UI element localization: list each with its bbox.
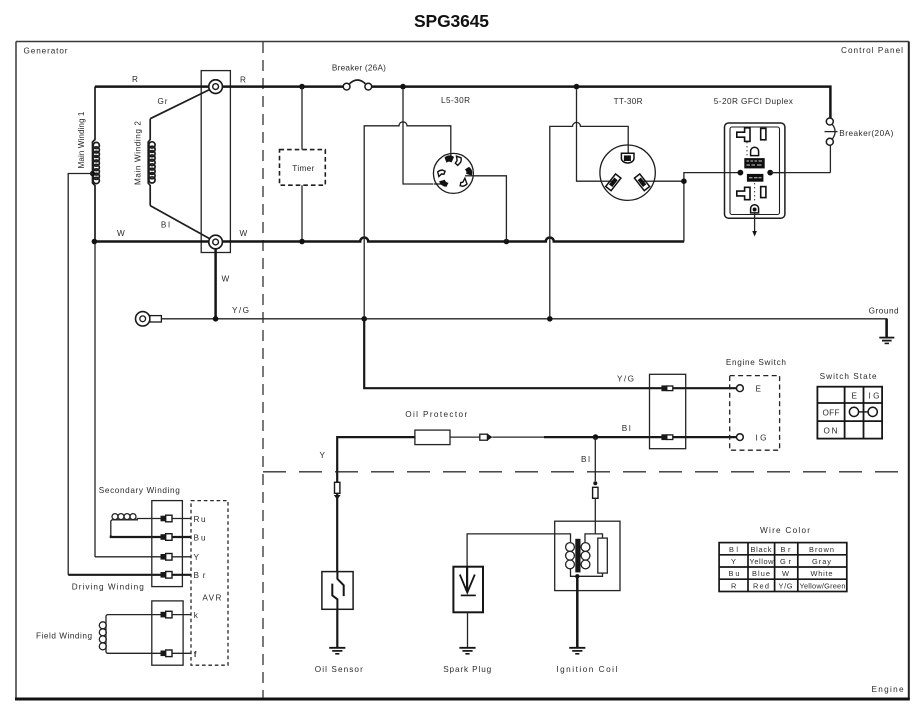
wire Y from oil protector down to oil sensor (337, 437, 415, 571)
svg-text:Blue: Blue (752, 569, 770, 578)
node R bus / L5-30R feed (400, 84, 406, 90)
svg-text:Black: Black (751, 545, 772, 554)
ground symbol spark plug (459, 648, 475, 654)
svg-text:W: W (222, 275, 230, 284)
bullet terminal Ru (161, 515, 173, 522)
svg-text:Breaker(20A): Breaker(20A) (839, 129, 893, 138)
field winding coil L4 (99, 615, 162, 654)
node R bus / TT-30R feed (574, 84, 580, 90)
svg-text:Field Winding: Field Winding (36, 632, 92, 641)
bullet connector on Y wire (oil sensor lead) (334, 482, 341, 499)
wire L5-30R ground pin riser (hop over hot at x403, down at x364 to Y/G) (364, 122, 451, 316)
wire TT-30R ground (center pin up, left, down at x550 to Y/G; hop over W) (550, 122, 628, 316)
GFCI ground stub wire (754, 213, 756, 232)
ground symbol right (879, 319, 894, 344)
node W bus / L5-30R neutral (504, 239, 510, 245)
GFCI bottom hot slot (761, 187, 766, 198)
ground symbol oil sensor (329, 648, 345, 654)
wire oil sensor to ground (336, 609, 338, 648)
wire GFCI line side to breaker20 (770, 172, 830, 174)
svg-text:W: W (117, 229, 125, 238)
wire timer bottom drop (301, 185, 303, 241)
timer box (dashed) (280, 150, 326, 186)
wire stubs from terminals to AVR box (172, 519, 191, 575)
svg-text:Y: Y (731, 557, 736, 566)
primary top lead to spark plug (467, 534, 570, 567)
svg-text:L5-30R: L5-30R (441, 96, 470, 105)
core (575, 539, 580, 573)
ignition coil internals T1 (467, 534, 607, 576)
GFCI top hot slot (761, 128, 766, 139)
svg-text:Red: Red (753, 581, 769, 590)
svg-text:W: W (782, 569, 789, 578)
bottom internal link (571, 569, 603, 577)
region divider vertical dashed (Generator | Control Panel) (262, 42, 264, 698)
svg-text:Y/G: Y/G (617, 374, 634, 383)
wire color row3 Bu Blue W White (729, 569, 833, 578)
GFCI through-wire segments (724, 172, 787, 174)
svg-text:Gray: Gray (812, 557, 831, 566)
svg-text:Y: Y (320, 451, 326, 460)
bullet terminal f (161, 650, 173, 657)
breaker CB2 20A (825, 118, 838, 173)
node tap of winding 1 (90, 171, 95, 176)
wire Br row from tap (thick) (68, 574, 162, 576)
svg-text:Y: Y (194, 553, 200, 562)
wire oil protector to Bl junction (thin) (492, 436, 544, 438)
svg-text:Oil Sensor: Oil Sensor (315, 665, 363, 674)
ground symbol ignition coil (569, 648, 585, 654)
svg-text:Control Panel: Control Panel (841, 46, 903, 55)
secondary resistor rect (598, 538, 608, 573)
bullet connector Y/G row (661, 385, 672, 391)
svg-text:White: White (811, 569, 833, 578)
GFCI terminal right (767, 170, 773, 176)
wire R bus right segment to breaker20 drop (372, 87, 831, 118)
GFCI top T-slot (neutral) (737, 128, 750, 142)
wire Bl diagonal winding2 to bottom brush terminal (150, 206, 215, 242)
wire L5-30R neutral (right pin to W bus) (474, 176, 507, 242)
svg-text:Switch State: Switch State (820, 372, 877, 381)
GFCI bottom ground hole (751, 205, 759, 213)
GFCI top ground hole (751, 147, 759, 155)
svg-text:5-20R GFCI Duplex: 5-20R GFCI Duplex (714, 97, 793, 106)
svg-text:R: R (240, 76, 246, 85)
node Bl junction (593, 434, 599, 440)
GFCI RESET button (744, 158, 764, 168)
svg-text:IG: IG (869, 391, 880, 400)
wire L5-30R hot feed (from R bus dot down to left pin) (403, 89, 433, 184)
top internal link (585, 534, 603, 543)
wire color table grid (719, 543, 847, 592)
wire W bus (with hops at x364 and x550) (94, 238, 684, 242)
terminal bottom (slip ring W) (209, 235, 223, 249)
svg-text:Engine: Engine (872, 685, 904, 694)
bullet terminal Y (161, 554, 173, 561)
wire Bl drop to ignition coil (594, 437, 596, 481)
svg-text:Engine Switch: Engine Switch (726, 358, 786, 367)
GFCI TEST button (747, 174, 764, 182)
receptacle TT-30R body (600, 145, 655, 200)
svg-text:Bl: Bl (729, 545, 738, 554)
node coil ground junction (575, 574, 579, 578)
wire Gr diagonal winding2 to top brush terminal (150, 87, 215, 119)
svg-text:Main Winding 2: Main Winding 2 (134, 121, 143, 185)
svg-text:Bl: Bl (581, 455, 590, 464)
svg-text:Secondary Winding: Secondary Winding (99, 486, 180, 495)
oil sensor switch contacts (332, 572, 343, 610)
TT-30R slots (606, 153, 650, 190)
wire R bus left segment (95, 85, 343, 88)
svg-text:Wire Color: Wire Color (760, 526, 810, 535)
wire stubs field terminals (172, 615, 191, 654)
svg-text:OFF: OFF (823, 409, 840, 418)
svg-text:E: E (756, 385, 762, 394)
wire timer top drop (301, 87, 303, 150)
wire secondary winding to AVR Bu row (thick) (111, 536, 162, 538)
svg-text:TT-30R: TT-30R (614, 97, 643, 106)
engine switch connector block (650, 374, 686, 448)
bullet terminal k (161, 611, 173, 618)
svg-text:SPG3645: SPG3645 (414, 11, 489, 31)
AVR connector block 1 (152, 501, 183, 587)
GFCI dotted centre lines (747, 142, 755, 203)
oil sensor box (322, 572, 353, 610)
terminal bottom redraw (slip ring W) (209, 235, 223, 249)
wire W neutral drop from bottom terminal to ground bus (214, 249, 217, 319)
AVR connector block 2 (field) (152, 601, 183, 665)
svg-text:E: E (852, 391, 858, 400)
bullet connector Bl row (661, 434, 672, 440)
wire connector to coil box (594, 498, 596, 534)
svg-text:Generator: Generator (24, 47, 68, 56)
L5-30R pin stub wires (434, 154, 474, 184)
spark plug box (453, 567, 483, 613)
node Y/G / W drop (213, 316, 219, 322)
svg-text:Gr: Gr (158, 97, 168, 106)
wire TT-30R hot feed (dot down, hop by gnd wire, to left pin) (577, 89, 613, 181)
main winding 1 coil L1 (93, 87, 100, 242)
svg-text:f: f (194, 650, 197, 659)
svg-text:R: R (731, 581, 736, 590)
svg-text:Breaker (26A): Breaker (26A) (332, 64, 386, 73)
wire color row4 R Red Y/G Yellow/Green (731, 581, 846, 590)
left winding loops (566, 543, 575, 552)
wire color row1 Bl Black Br Brown (729, 545, 834, 554)
ground lug terminal (136, 312, 162, 326)
wire ignition coil ground (576, 576, 579, 648)
wire Bl engine switch IG to oil protector junction (544, 436, 737, 438)
wire color row2 Y Yellow Gr Gray (731, 557, 831, 566)
node W bus / winding1 (92, 239, 98, 245)
svg-text:Timer: Timer (292, 164, 314, 173)
engine switch dashed box (730, 376, 780, 451)
svg-text:Y/G: Y/G (232, 306, 249, 315)
wire TT-30R neutral to GFCI (684, 173, 741, 182)
svg-text:Driving Winding: Driving Winding (72, 583, 144, 592)
receptacle L5-30R body (433, 153, 473, 193)
svg-text:Yellow: Yellow (750, 557, 775, 566)
breaker CB1 26A (343, 80, 371, 90)
svg-text:Y/G: Y/G (779, 581, 793, 590)
svg-text:Ground: Ground (869, 307, 899, 316)
GFCI bottom T-slot (737, 187, 750, 199)
terminal E (737, 385, 744, 392)
spark plug electrode arrow (460, 567, 476, 596)
GFCI terminal left (738, 170, 744, 176)
node W bus / timer bottom (299, 239, 305, 245)
svg-text:Ignition Coil: Ignition Coil (556, 665, 617, 674)
region divider horizontal dashed (Engine) (263, 471, 909, 473)
wire Y/G ground bus (161, 319, 886, 337)
switch state contact circles (849, 407, 877, 416)
svg-text:Yellow/Green: Yellow/Green (800, 581, 846, 590)
brush block connector (201, 71, 230, 253)
svg-text:W: W (240, 229, 248, 238)
wire Y/G to engine switch E (364, 319, 737, 388)
bullet terminal Bu (161, 534, 173, 541)
wire TT-30R neutral (right pin to junction, down to W bus end) (647, 181, 684, 241)
secondary winding coil L3 (111, 514, 162, 536)
GFCI inner face (730, 127, 780, 215)
svg-text:IG: IG (756, 434, 767, 443)
bullet connector on Bl drop (593, 481, 598, 498)
node TT-30R neutral junction (681, 178, 687, 184)
TT-30R pin stub wires (600, 145, 655, 181)
L5-30R slots (438, 155, 473, 186)
bullet terminal Br (161, 572, 173, 579)
wire winding1 bottom continues to AVR Y row (94, 242, 96, 558)
svg-text:Brown: Brown (809, 545, 834, 554)
GFCI outer body (725, 123, 785, 218)
svg-text:Bl: Bl (161, 220, 170, 229)
bullet connector on Bl wire (480, 434, 493, 441)
right winding loops (581, 543, 590, 552)
oil protector box (415, 430, 450, 445)
svg-text:Oil Protector: Oil Protector (405, 410, 467, 419)
ignition coil box (555, 521, 620, 590)
main winding 2 coil L2 (148, 119, 155, 206)
wire tap to AVR Br (down left column) (68, 174, 92, 575)
terminal top (slip ring R) (209, 80, 223, 94)
wire Y row from winding1 (95, 556, 162, 558)
terminal top redraw (slip ring R) (209, 80, 223, 94)
node Y/G / TT-30R gnd riser (547, 316, 553, 322)
wire spark plug to ground (467, 612, 469, 648)
node R bus / timer top (299, 84, 305, 90)
terminal IG (737, 434, 744, 441)
node Y/G / L5-30R gnd riser (361, 316, 367, 322)
AVR dashed box (191, 501, 228, 666)
svg-text:Main Winding 1: Main Winding 1 (77, 111, 86, 168)
svg-text:Spark Plug: Spark Plug (443, 665, 491, 674)
wire oil protector output stub (450, 436, 480, 438)
switch state table (817, 387, 882, 439)
svg-text:R: R (132, 75, 138, 84)
svg-text:Bl: Bl (622, 424, 631, 433)
svg-text:AVR: AVR (202, 593, 221, 602)
